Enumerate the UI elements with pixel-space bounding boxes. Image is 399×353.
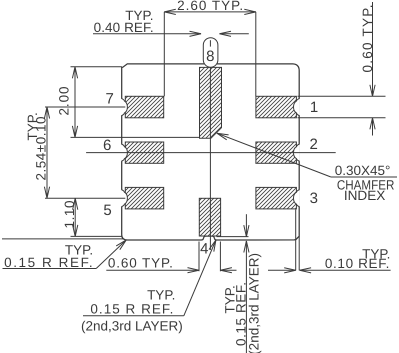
svg-text:1: 1 bbox=[310, 99, 318, 116]
svg-text:0.15 R REF.: 0.15 R REF. bbox=[90, 301, 173, 316]
svg-text:INDEX: INDEX bbox=[344, 188, 386, 203]
svg-text:5: 5 bbox=[103, 202, 111, 219]
svg-text:2.00: 2.00 bbox=[57, 87, 72, 116]
svg-text:2: 2 bbox=[310, 136, 318, 153]
svg-text:0.60 TYP.: 0.60 TYP. bbox=[108, 256, 173, 271]
svg-text:1.10: 1.10 bbox=[62, 201, 77, 229]
svg-text:(2nd,3rd LAYER): (2nd,3rd LAYER) bbox=[246, 253, 261, 353]
svg-text:0.60 TYP.: 0.60 TYP. bbox=[360, 5, 375, 73]
svg-text:0.30X45°: 0.30X45° bbox=[335, 163, 391, 178]
svg-text:3: 3 bbox=[310, 190, 318, 207]
svg-text:4: 4 bbox=[200, 241, 208, 258]
svg-text:0.40 REF.: 0.40 REF. bbox=[94, 20, 154, 35]
svg-text:0.10 REF.: 0.10 REF. bbox=[325, 256, 390, 271]
svg-text:6: 6 bbox=[103, 137, 111, 154]
svg-text:(2nd,3rd LAYER): (2nd,3rd LAYER) bbox=[81, 318, 183, 333]
svg-text:2.54±0.10: 2.54±0.10 bbox=[34, 117, 49, 181]
svg-text:2.60 TYP.: 2.60 TYP. bbox=[177, 0, 243, 13]
svg-text:8: 8 bbox=[206, 48, 214, 65]
svg-text:7: 7 bbox=[106, 90, 114, 107]
